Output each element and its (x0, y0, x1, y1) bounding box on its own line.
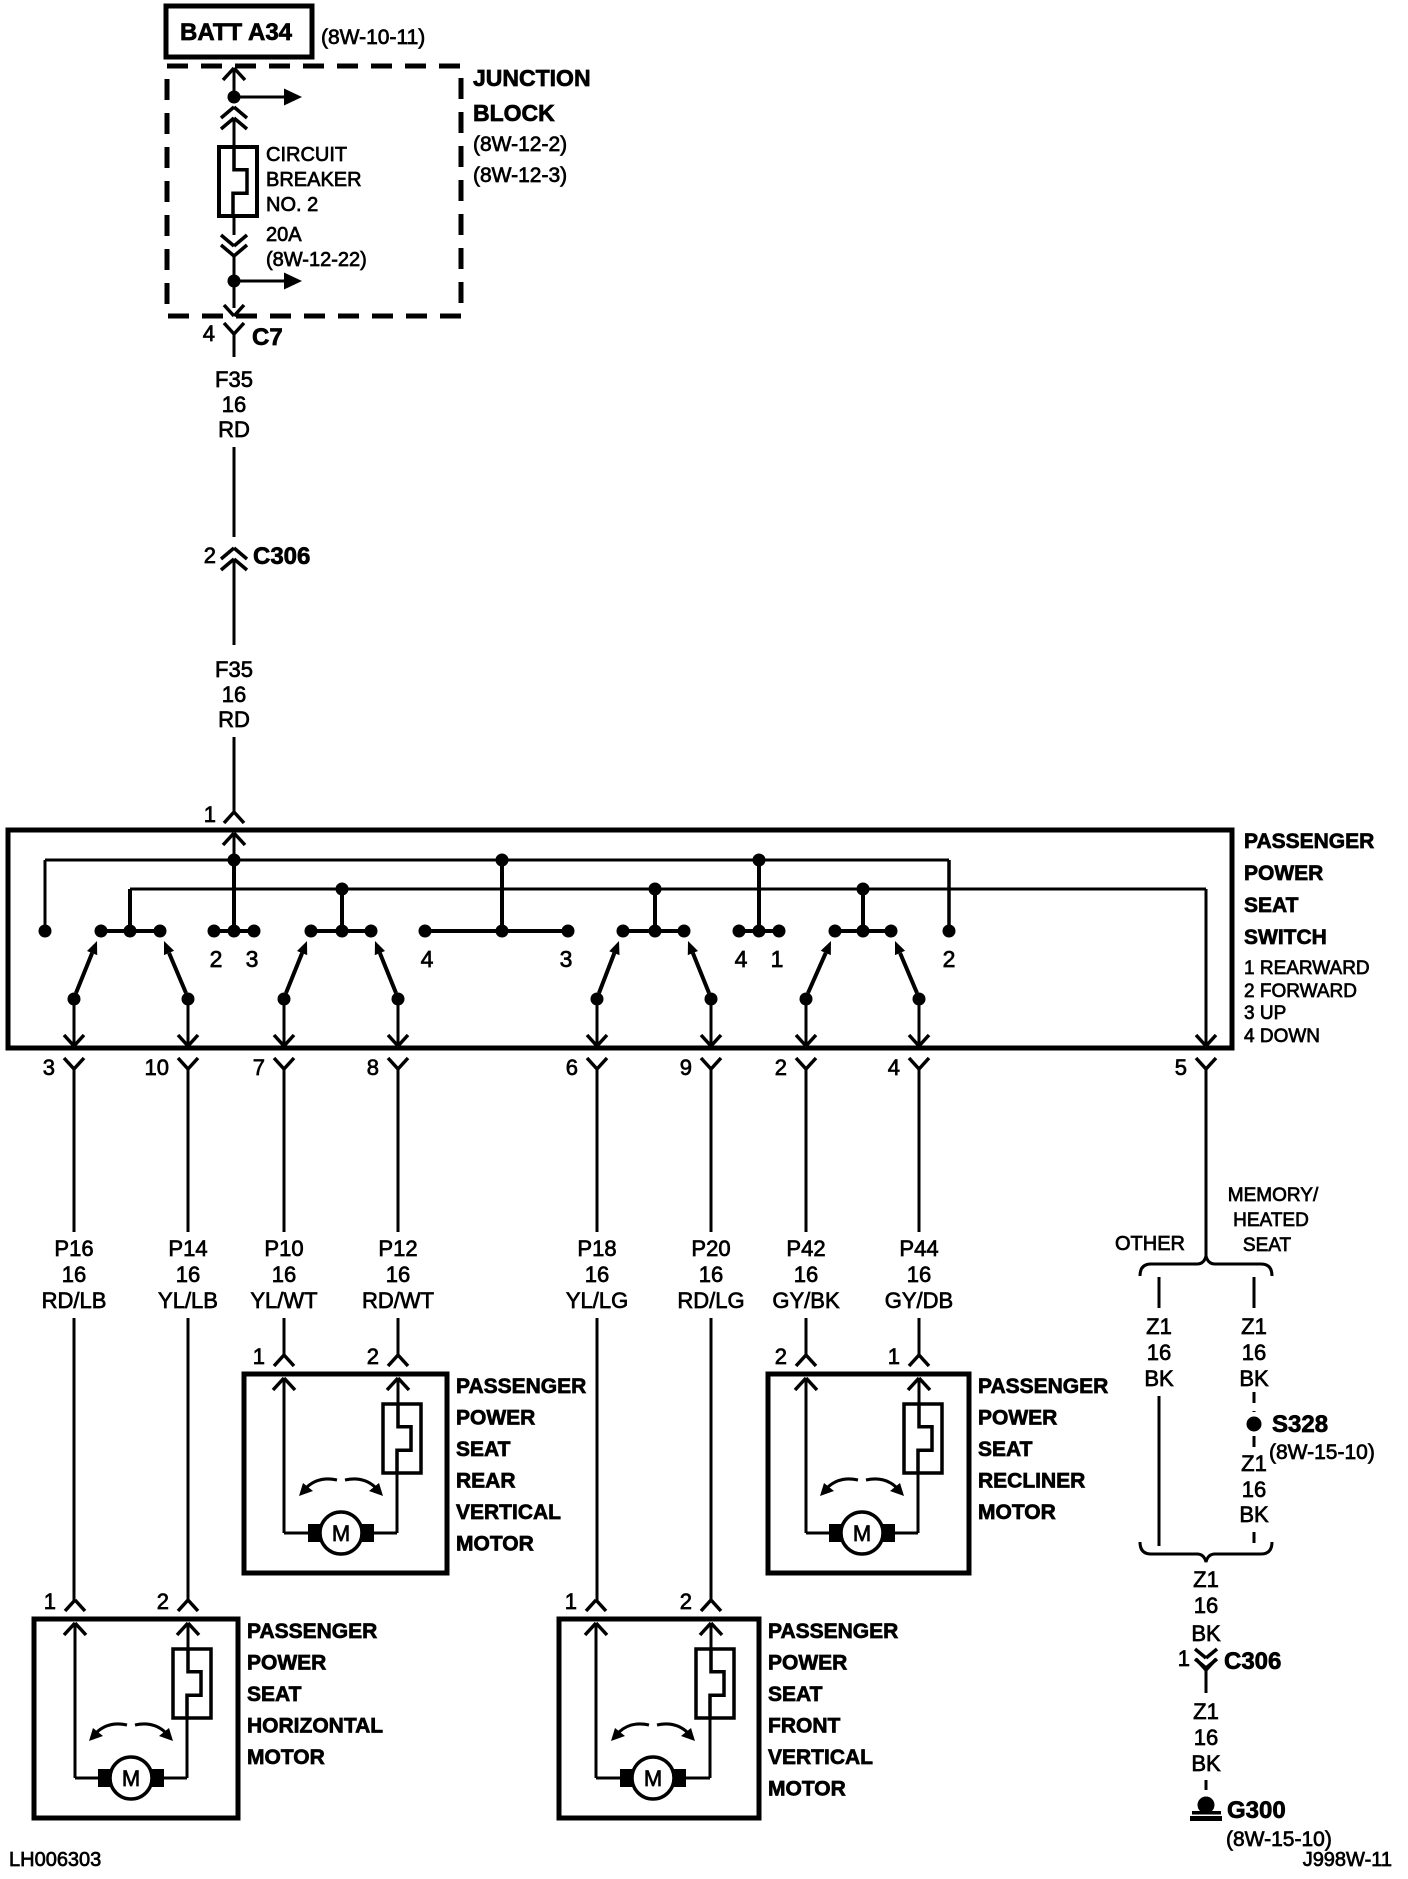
svg-text:2: 2 (210, 946, 223, 972)
svg-text:Z1: Z1 (1241, 1314, 1267, 1339)
svg-text:3: 3 (560, 946, 573, 972)
svg-text:RD/LB: RD/LB (42, 1288, 107, 1313)
svg-text:Z1: Z1 (1193, 1699, 1219, 1724)
svg-text:RD/WT: RD/WT (362, 1288, 434, 1313)
svg-text:2: 2 (680, 1589, 692, 1614)
svg-text:MOTOR: MOTOR (456, 1533, 534, 1556)
svg-text:3: 3 (43, 1055, 55, 1080)
svg-text:RD: RD (218, 417, 250, 442)
svg-text:F35: F35 (215, 367, 253, 392)
svg-text:GY/DB: GY/DB (885, 1288, 953, 1313)
svg-text:GY/BK: GY/BK (772, 1288, 840, 1313)
svg-text:F35: F35 (215, 657, 253, 682)
svg-text:4: 4 (203, 321, 215, 346)
svg-text:(8W-10-11): (8W-10-11) (321, 26, 425, 49)
svg-text:POWER: POWER (247, 1652, 326, 1675)
svg-text:M: M (644, 1766, 662, 1791)
svg-text:16: 16 (1242, 1477, 1266, 1502)
svg-text:3: 3 (246, 946, 259, 972)
svg-text:SEAT: SEAT (247, 1683, 302, 1706)
svg-text:P12: P12 (378, 1236, 417, 1261)
svg-text:NO. 2: NO. 2 (266, 194, 318, 216)
svg-text:YL/WT: YL/WT (250, 1288, 317, 1313)
svg-text:OTHER: OTHER (1115, 1233, 1185, 1255)
svg-text:16: 16 (386, 1262, 410, 1287)
svg-text:1: 1 (204, 802, 216, 827)
svg-text:16: 16 (62, 1262, 86, 1287)
svg-text:CIRCUIT: CIRCUIT (266, 144, 347, 166)
svg-text:16: 16 (794, 1262, 818, 1287)
svg-text:PASSENGER: PASSENGER (1244, 830, 1374, 853)
svg-text:BK: BK (1239, 1502, 1269, 1527)
svg-text:16: 16 (222, 392, 246, 417)
svg-text:3 UP: 3 UP (1244, 1003, 1286, 1024)
svg-text:RECLINER: RECLINER (978, 1470, 1085, 1493)
svg-text:BK: BK (1144, 1366, 1174, 1391)
svg-text:YL/LB: YL/LB (158, 1288, 218, 1313)
svg-text:BATT A34: BATT A34 (180, 19, 293, 46)
svg-text:P16: P16 (54, 1236, 93, 1261)
svg-text:RD: RD (218, 707, 250, 732)
svg-text:PASSENGER: PASSENGER (247, 1620, 377, 1643)
svg-text:6: 6 (566, 1055, 578, 1080)
svg-text:POWER: POWER (456, 1407, 535, 1430)
svg-text:BREAKER: BREAKER (266, 169, 362, 191)
svg-text:16: 16 (1242, 1340, 1266, 1365)
svg-text:POWER: POWER (1244, 862, 1323, 885)
svg-text:FRONT: FRONT (768, 1715, 840, 1738)
svg-text:P18: P18 (577, 1236, 616, 1261)
svg-text:MOTOR: MOTOR (247, 1746, 325, 1769)
svg-text:MOTOR: MOTOR (978, 1501, 1056, 1524)
svg-text:JUNCTION: JUNCTION (473, 65, 591, 91)
svg-text:J998W-11: J998W-11 (1303, 1849, 1392, 1871)
svg-text:5: 5 (1175, 1055, 1187, 1080)
svg-text:1: 1 (44, 1589, 56, 1614)
svg-text:(8W-12-22): (8W-12-22) (266, 249, 367, 271)
svg-text:16: 16 (907, 1262, 931, 1287)
svg-text:POWER: POWER (768, 1652, 847, 1675)
svg-text:20A: 20A (266, 224, 302, 246)
svg-text:7: 7 (253, 1055, 265, 1080)
svg-text:1: 1 (1178, 1646, 1190, 1671)
svg-text:P20: P20 (691, 1236, 730, 1261)
svg-text:BLOCK: BLOCK (473, 100, 555, 126)
svg-text:4: 4 (735, 946, 748, 972)
svg-text:Z1: Z1 (1146, 1314, 1172, 1339)
svg-text:1: 1 (253, 1344, 265, 1369)
svg-text:P14: P14 (168, 1236, 207, 1261)
svg-text:2 FORWARD: 2 FORWARD (1244, 981, 1357, 1002)
svg-text:Z1: Z1 (1241, 1451, 1267, 1476)
svg-text:BK: BK (1191, 1751, 1221, 1776)
svg-text:1: 1 (771, 946, 784, 972)
svg-text:16: 16 (1147, 1340, 1171, 1365)
svg-text:1: 1 (565, 1589, 577, 1614)
svg-text:MEMORY/: MEMORY/ (1228, 1185, 1319, 1206)
svg-text:1: 1 (888, 1344, 900, 1369)
svg-text:16: 16 (1194, 1725, 1218, 1750)
svg-text:HORIZONTAL: HORIZONTAL (247, 1715, 383, 1738)
svg-text:SEAT: SEAT (768, 1683, 823, 1706)
svg-text:BK: BK (1239, 1366, 1269, 1391)
svg-text:VERTICAL: VERTICAL (456, 1501, 561, 1524)
svg-text:PASSENGER: PASSENGER (456, 1375, 586, 1398)
svg-text:1 REARWARD: 1 REARWARD (1244, 958, 1370, 979)
svg-text:16: 16 (272, 1262, 296, 1287)
svg-text:M: M (122, 1766, 140, 1791)
svg-text:(8W-15-10): (8W-15-10) (1269, 1441, 1375, 1464)
svg-text:4 DOWN: 4 DOWN (1244, 1026, 1320, 1047)
svg-text:2: 2 (943, 946, 956, 972)
svg-text:BK: BK (1191, 1621, 1221, 1646)
svg-text:P10: P10 (264, 1236, 303, 1261)
svg-text:16: 16 (699, 1262, 723, 1287)
svg-text:2: 2 (775, 1055, 787, 1080)
svg-text:2: 2 (775, 1344, 787, 1369)
svg-text:PASSENGER: PASSENGER (768, 1620, 898, 1643)
svg-text:REAR: REAR (456, 1470, 516, 1493)
svg-text:P42: P42 (786, 1236, 825, 1261)
svg-text:16: 16 (222, 682, 246, 707)
svg-text:C7: C7 (252, 324, 283, 351)
svg-text:Z1: Z1 (1193, 1567, 1219, 1592)
svg-text:YL/LG: YL/LG (566, 1288, 628, 1313)
svg-text:2: 2 (157, 1589, 169, 1614)
svg-text:4: 4 (421, 946, 434, 972)
svg-text:SEAT: SEAT (456, 1438, 511, 1461)
svg-text:C306: C306 (253, 543, 310, 570)
svg-text:RD/LG: RD/LG (677, 1288, 744, 1313)
svg-text:(8W-15-10): (8W-15-10) (1226, 1828, 1332, 1851)
svg-text:4: 4 (888, 1055, 900, 1080)
svg-text:(8W-12-3): (8W-12-3) (473, 164, 567, 187)
svg-text:M: M (332, 1521, 350, 1546)
svg-text:(8W-12-2): (8W-12-2) (473, 133, 567, 156)
svg-text:16: 16 (585, 1262, 609, 1287)
svg-text:POWER: POWER (978, 1407, 1057, 1430)
svg-text:2: 2 (204, 543, 216, 568)
svg-text:M: M (853, 1521, 871, 1546)
svg-text:16: 16 (176, 1262, 200, 1287)
svg-text:C306: C306 (1224, 1648, 1281, 1675)
svg-text:SEAT: SEAT (1243, 1235, 1292, 1256)
svg-text:16: 16 (1194, 1593, 1218, 1618)
svg-text:PASSENGER: PASSENGER (978, 1375, 1108, 1398)
svg-text:P44: P44 (899, 1236, 938, 1261)
svg-text:MOTOR: MOTOR (768, 1778, 846, 1801)
svg-text:S328: S328 (1272, 1411, 1328, 1438)
svg-text:2: 2 (367, 1344, 379, 1369)
svg-text:SEAT: SEAT (1244, 894, 1299, 917)
svg-text:9: 9 (680, 1055, 692, 1080)
svg-text:10: 10 (145, 1055, 169, 1080)
svg-text:SWITCH: SWITCH (1244, 926, 1327, 949)
svg-text:SEAT: SEAT (978, 1438, 1033, 1461)
svg-text:LH006303: LH006303 (9, 1849, 101, 1871)
svg-text:HEATED: HEATED (1233, 1210, 1309, 1231)
svg-text:8: 8 (367, 1055, 379, 1080)
svg-text:VERTICAL: VERTICAL (768, 1746, 873, 1769)
svg-text:G300: G300 (1227, 1797, 1286, 1824)
